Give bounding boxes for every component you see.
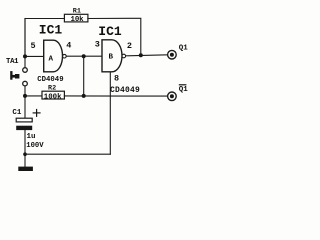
terminal Q1 center dot <box>170 53 174 57</box>
junction: gate A input node <box>23 54 27 58</box>
svg-text:B: B <box>109 54 114 62</box>
wire: gate B pin 8 down to ground rail <box>109 72 111 154</box>
svg-text:Q1: Q1 <box>179 45 189 53</box>
svg-text:2: 2 <box>127 41 132 51</box>
pushbutton TA1 contact bottom <box>23 81 28 86</box>
gate B output bubble <box>122 54 126 58</box>
op-amp U1 gate B body (CD4049 inverter B) <box>102 40 122 72</box>
svg-text:A: A <box>49 55 54 63</box>
wire: top feedback rail, left segment to R1 <box>25 19 65 57</box>
pushbutton TA1 cap bar <box>10 71 12 80</box>
svg-text:10k: 10k <box>71 16 85 24</box>
wire: gate A input stub <box>25 55 44 57</box>
label: Q1bar overline <box>179 84 187 86</box>
terminal Q1 outer ring <box>168 50 177 59</box>
op-amp U1 gate A body (CD4049 inverter A) <box>44 40 63 72</box>
svg-text:8: 8 <box>114 73 119 83</box>
svg-text:R1: R1 <box>73 8 81 16</box>
svg-text:100k: 100k <box>44 93 62 101</box>
wire: TA1 bottom to C1 node <box>24 86 26 118</box>
junction: R2 right / Q1bar net <box>82 94 86 98</box>
wire: C1 bottom to ground <box>24 130 26 167</box>
svg-text:1u: 1u <box>27 133 36 141</box>
junction: ground rail left node <box>23 152 27 156</box>
svg-text:CD4049: CD4049 <box>37 76 63 84</box>
wire: C1 node to R2 left <box>25 95 42 97</box>
resistor R2 body <box>42 91 64 99</box>
svg-text:4: 4 <box>66 41 71 51</box>
svg-text:TA1: TA1 <box>6 58 19 66</box>
wire: left vertical from top rail to TA1 <box>24 19 26 68</box>
svg-text:IC1: IC1 <box>39 23 63 38</box>
svg-text:100V: 100V <box>26 142 44 150</box>
ground symbol bar <box>18 167 33 171</box>
pushbutton TA1 bridge contact <box>15 74 19 79</box>
svg-text:C1: C1 <box>12 109 22 117</box>
wire: bottom ground rail <box>25 153 110 155</box>
terminal Q1bar outer ring <box>168 92 177 101</box>
capacitor C1 bottom plate (solid) <box>16 126 32 130</box>
capacitor C1 top plate <box>16 118 32 122</box>
terminal Q1bar center dot <box>170 94 174 98</box>
svg-text:5: 5 <box>31 41 36 51</box>
pushbutton TA1 contact top <box>23 68 28 73</box>
wire: R1 right to drop at Q1 net <box>88 18 141 55</box>
wire: drop from gate A output node to R2 net <box>83 56 85 96</box>
svg-text:IC1: IC1 <box>98 24 122 39</box>
wire: gate A output to gate B input <box>66 55 102 57</box>
junction: R1 to Q1 net <box>139 53 143 57</box>
junction: gate A output node <box>82 54 86 58</box>
wire: R2 right to Q1bar terminal <box>64 95 167 97</box>
label: C1 plus polarity mark <box>33 85 187 117</box>
junction: C1 top node <box>23 94 27 98</box>
wire: gate B output to Q1 terminal <box>126 55 168 56</box>
svg-text:CD4049: CD4049 <box>110 86 140 95</box>
svg-text:Q1: Q1 <box>179 86 189 94</box>
gate A output bubble <box>63 54 67 58</box>
svg-text:3: 3 <box>95 39 100 49</box>
pushbutton TA1 shaft <box>13 75 16 78</box>
svg-text:R2: R2 <box>48 84 56 92</box>
resistor R1 body <box>64 14 88 22</box>
